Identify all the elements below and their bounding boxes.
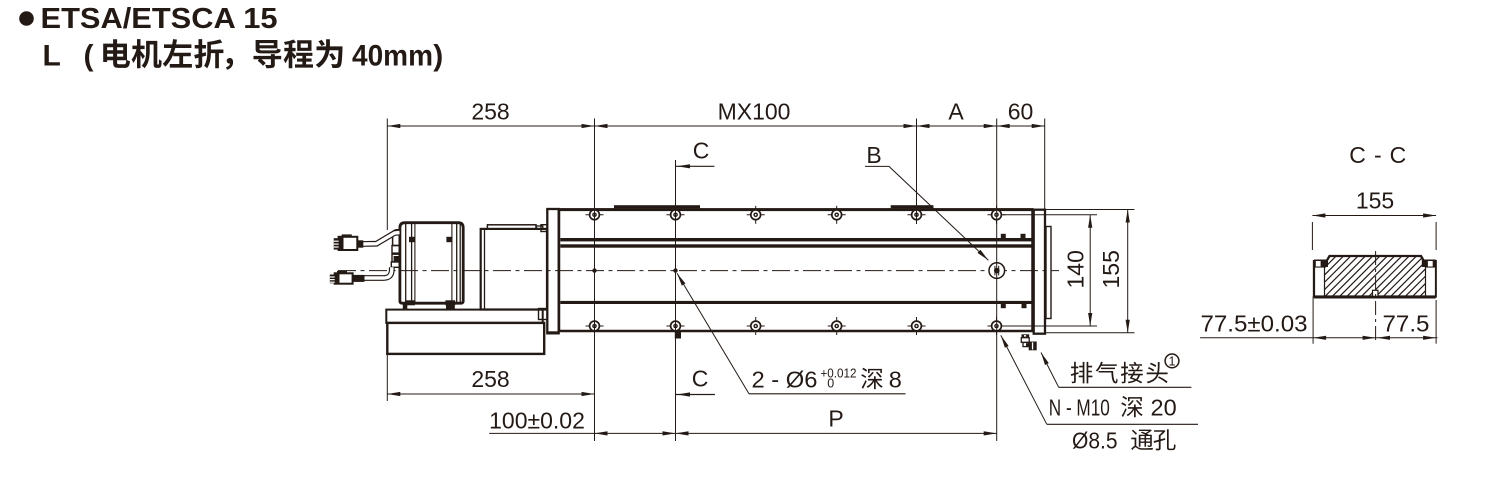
screw holes bottom row [586,317,604,335]
left end cap [547,209,558,333]
main body outline [559,210,1033,331]
svg-text:20: 20 [1151,395,1177,421]
left end cap foot [547,331,559,334]
coupling housing [481,229,547,310]
svg-text:77.5: 77.5 [1383,311,1430,337]
svg-text:77.5±0.03: 77.5±0.03 [1201,311,1308,337]
svg-text:60: 60 [1008,99,1034,125]
svg-text:(: ( [84,40,94,73]
svg-text:258: 258 [471,99,509,125]
exhaust label [1041,353,1059,388]
motor feet [403,304,408,309]
bottom center notch [1373,290,1379,296]
upper cable [363,233,400,245]
lower cable [364,267,392,278]
side seal caps [1314,260,1328,268]
svg-text:40mm: 40mm [352,40,433,73]
100±0.02 dim [489,432,675,434]
svg-text:L: L [43,40,61,73]
title bullet [19,11,34,26]
centerline [338,270,1059,272]
155 dim [1127,210,1129,333]
section body hatched [1314,256,1436,297]
2-d6 depth 8 annotation [677,273,749,394]
lower connector [337,271,347,274]
svg-text:C: C [693,138,710,164]
right thin plate [1046,227,1051,319]
left end tabs [541,225,547,232]
section centerline [1375,251,1377,344]
exhaust fitting [1022,334,1030,337]
base plate upper [386,310,542,323]
P dim [676,432,997,434]
svg-text:140: 140 [1063,250,1089,288]
motor body [400,223,463,304]
sensor block under body [675,332,681,339]
svg-text:N - M10: N - M10 [1049,395,1110,421]
svg-text:155: 155 [1356,188,1394,214]
155 top dim [1312,215,1436,217]
svg-text:100±0.02: 100±0.02 [489,408,585,434]
svg-text:MX100: MX100 [718,99,791,125]
inner rail bands [560,238,1032,241]
extension lines [386,119,388,231]
top dimension line [387,125,1044,127]
svg-text:): ) [433,40,443,73]
section bottom edge [1314,296,1436,299]
svg-text:8: 8 [889,366,902,392]
svg-text:B: B [866,142,881,168]
svg-text:ETSA/ETSCA 15: ETSA/ETSCA 15 [41,3,278,35]
77.5 dims [1312,297,1314,344]
svg-text:0: 0 [827,376,834,390]
dowel holes on centerline [592,268,596,272]
grease port B [989,263,1005,279]
svg-text:Ø8.5: Ø8.5 [1072,428,1118,454]
svg-text:2 - Ø6: 2 - Ø6 [752,366,818,392]
end block screws [1001,234,1006,238]
svg-text:1: 1 [1169,354,1176,368]
cable entry boot [393,230,400,246]
right end cap [1034,210,1045,334]
upper connector [342,234,352,237]
base plate lower [387,323,544,354]
bottom 258 dim [387,393,594,395]
N-M10 label [1001,335,1047,424]
section side strips [1315,267,1325,296]
motor inner squares [409,237,415,242]
svg-text:+0.012: +0.012 [821,366,857,380]
svg-text:C: C [692,366,709,392]
coupling housing top lip [487,225,536,229]
svg-text:A: A [948,99,964,125]
140 dim [1089,215,1091,326]
svg-text:258: 258 [471,366,509,392]
svg-text:C - C: C - C [1349,142,1406,168]
top slider bars [614,205,700,208]
cable glands [392,246,400,254]
screw holes top row [586,206,604,224]
svg-text:155: 155 [1098,250,1124,288]
svg-text:P: P [828,406,843,432]
